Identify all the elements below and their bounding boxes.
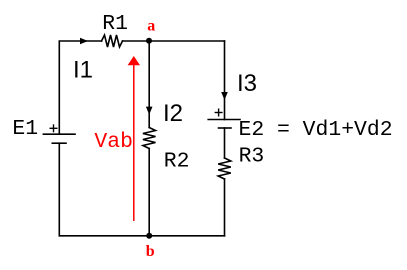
resistor R1 bbox=[102, 35, 123, 47]
polarity + of E2 bbox=[215, 109, 223, 117]
battery E1 bbox=[43, 134, 75, 143]
wire middle rail: node a to R2 bbox=[148, 41, 150, 128]
resistor R3 bbox=[218, 158, 231, 179]
svg-text:R1: R1 bbox=[102, 12, 128, 36]
svg-text:a: a bbox=[147, 18, 155, 35]
svg-text:R2: R2 bbox=[164, 150, 190, 174]
current arrow I3 bbox=[221, 92, 228, 100]
node b bbox=[146, 233, 152, 239]
svg-text:I2: I2 bbox=[163, 100, 183, 127]
voltage arrow Vab bbox=[128, 56, 140, 221]
battery E2 bbox=[208, 120, 240, 129]
wire right rail: E2 to R3 bbox=[224, 128, 226, 158]
resistor R2 bbox=[143, 128, 156, 149]
svg-text:I1: I1 bbox=[73, 57, 93, 84]
wire middle rail lower: R2 to node b bbox=[148, 149, 150, 236]
svg-text:E2 = Vd1+Vd2: E2 = Vd1+Vd2 bbox=[239, 118, 393, 142]
current arrow I1 bbox=[80, 38, 88, 45]
wire right rail lower: R3 to bottom wire bbox=[224, 179, 226, 236]
node a bbox=[146, 38, 152, 44]
wire bottom bbox=[59, 235, 224, 237]
svg-text:E1: E1 bbox=[12, 117, 38, 141]
svg-text:Vab: Vab bbox=[94, 130, 133, 154]
wire right rail upper: corner to battery E2 bbox=[224, 41, 226, 120]
wire top-right: R1 to right corner bbox=[123, 40, 225, 42]
polarity + of E1 bbox=[50, 124, 58, 132]
svg-text:I3: I3 bbox=[237, 70, 257, 97]
wire left rail lower: bottom to battery E1 bbox=[58, 143, 60, 236]
svg-text:R3: R3 bbox=[239, 145, 265, 169]
current arrow I2 bbox=[146, 107, 153, 115]
svg-text:b: b bbox=[146, 243, 155, 260]
wire top-left: left corner to R1 bbox=[59, 41, 101, 134]
